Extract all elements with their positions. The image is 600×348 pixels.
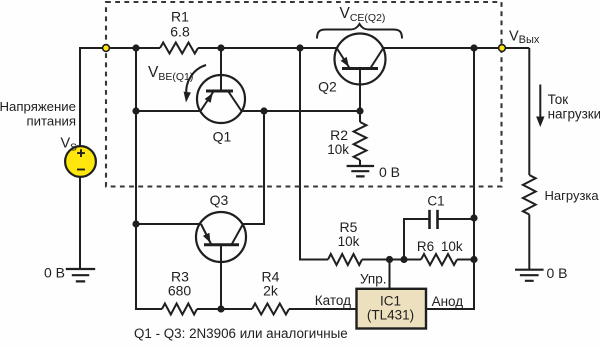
label Ток нагрузки (548, 92, 600, 121)
svg-text:Упр.: Упр. (360, 272, 387, 287)
wire Q3 base down to R3/R4 junction (220, 245, 222, 309)
resistor R1 6.8 (160, 43, 198, 54)
wire left vertical bus x=136 (136, 48, 162, 309)
transistor Q3 circle (196, 212, 246, 262)
svg-text:2k: 2k (263, 283, 279, 299)
wire Q3 emitter horizontal (136, 223, 201, 225)
value 2k (263, 283, 279, 299)
wire Q1 emitter horizontal (136, 110, 201, 112)
voltage source Vs circle (65, 146, 96, 177)
svg-text:0 В: 0 В (547, 265, 568, 281)
wire bottom rail R4 to TL431 cathode (289, 308, 357, 310)
voltage source plus sign (77, 149, 85, 157)
svg-text:Нагрузка: Нагрузка (545, 188, 600, 203)
svg-text:0 В: 0 В (379, 164, 400, 180)
label TL431 (367, 308, 414, 323)
svg-text:Q1 - Q3: 2N3906 или аналогичны: Q1 - Q3: 2N3906 или аналогичные (134, 326, 348, 341)
svg-text:C1: C1 (427, 194, 444, 209)
svg-text:10k: 10k (338, 234, 360, 249)
label R3 (171, 269, 189, 285)
wire C1 right branch (438, 218, 475, 220)
transistor Q1 collector (228, 91, 242, 111)
pin label Анод (432, 294, 464, 309)
label Напряжение питания (0, 99, 76, 129)
node junction Q3 emitter (132, 220, 139, 227)
label R5 (340, 219, 358, 235)
node input yellow (103, 45, 110, 52)
wire middle vertical x=300 top rail to R5 (300, 48, 328, 260)
node junction top rail x300 (296, 44, 303, 51)
node junction top rail x136 (132, 44, 139, 51)
wire Q1 collector to Q2 base node (242, 110, 361, 112)
svg-text:680: 680 (168, 283, 192, 299)
wire load top lead (528, 48, 530, 175)
svg-text:IC1: IC1 (380, 294, 401, 309)
transistor Q2 collector (371, 49, 384, 69)
svg-text:Q2: Q2 (318, 79, 337, 95)
value 6.8 (170, 23, 190, 39)
label VBE(Q1) (148, 64, 193, 83)
svg-text:(TL431): (TL431) (367, 308, 414, 323)
svg-text:10k: 10k (441, 239, 463, 254)
wire top rail Q2 collector to load corner (383, 47, 529, 49)
value 10k R2 (327, 142, 349, 157)
annotation load current arrow (536, 85, 544, 128)
wire top rail R1 to Q2 emitter (198, 47, 337, 49)
svg-text:Q1: Q1 (213, 129, 232, 145)
ground under R2 (347, 166, 375, 176)
wire R6 right to anode bus (457, 259, 474, 261)
label C1 (427, 194, 444, 209)
resistor R3 680 (162, 304, 197, 315)
wire load bottom lead to ground (528, 215, 530, 270)
node junction ref pin (386, 256, 393, 263)
ground under source (66, 269, 95, 281)
svg-text:6.8: 6.8 (170, 23, 190, 39)
pin label Катод (315, 293, 351, 308)
dashed regulator boundary box (106, 2, 502, 187)
wire Q1 base vertical (220, 48, 222, 91)
node junction R6 right (470, 256, 477, 263)
node junction Q2 base (356, 107, 363, 114)
svg-text:Катод: Катод (315, 293, 351, 308)
node junction C1 right (470, 214, 477, 221)
resistor R5 10k (328, 254, 362, 265)
wire R2 bottom to ground (359, 160, 361, 166)
label R2 (330, 127, 348, 143)
svg-text:Ток: Ток (548, 92, 569, 107)
svg-text:питания: питания (26, 114, 76, 129)
svg-text:Напряжение: Напряжение (0, 99, 76, 114)
label IC1 (380, 294, 401, 309)
transistor Q1 emitter with arrow (201, 92, 214, 112)
svg-text:0 В: 0 В (44, 265, 65, 281)
op-amp IC1 TL431 box (357, 289, 427, 329)
label VCE(Q2) (340, 5, 386, 24)
value 10k R6 (441, 239, 463, 254)
label 0 В right (547, 265, 568, 281)
node junction Q1 collector (260, 107, 267, 114)
annotation VBE(Q1) arc arrow (184, 65, 206, 103)
transistor Q2 circle (335, 34, 386, 85)
resistor load Нагрузка (523, 175, 536, 215)
svg-text:R2: R2 (330, 127, 348, 143)
svg-text:R6: R6 (417, 239, 434, 254)
label R4 (262, 269, 280, 285)
node junction Q1 emitter (132, 107, 139, 114)
annotation VCE(Q2) brace (317, 24, 402, 39)
label 0 В middle (379, 164, 400, 180)
capacitor C1 (430, 210, 438, 229)
ground under load (515, 270, 544, 281)
label Q1 (213, 129, 232, 145)
node junction Q1 base top (217, 44, 224, 51)
resistor R6 10k (421, 254, 457, 265)
transistor Q3 emitter with arrow (201, 224, 211, 244)
wire right vertical bus x=474 top rail to anode (426, 48, 474, 309)
label Q3 (210, 192, 229, 208)
wire source to top rail and R1 (80, 48, 160, 146)
value 680 (168, 283, 192, 299)
wire Q1 collector down to Q3 collector (243, 111, 264, 224)
label Q2 (318, 79, 337, 95)
wire source Vs bottom lead to ground (79, 177, 81, 269)
label R6 (417, 239, 434, 254)
label Vs (61, 136, 78, 154)
label Нагрузка (545, 188, 600, 203)
node junction C1 left (400, 256, 407, 263)
transistor Q3 base bar (204, 243, 239, 246)
label Vвых (509, 29, 540, 47)
wire bottom rail R3 to R4 (197, 308, 252, 310)
wire TL431 ref pin vertical (389, 260, 391, 289)
resistor R4 2k (252, 304, 289, 315)
svg-text:нагрузки: нагрузки (548, 106, 600, 121)
transistor Q1 base bar (206, 90, 233, 93)
node junction R3 R4 (217, 305, 224, 312)
label 0 В left (44, 265, 65, 281)
node junction top rail x474 (470, 44, 477, 51)
pin label Упр. (360, 272, 387, 287)
svg-text:R5: R5 (340, 219, 358, 235)
node output yellow Vвых (499, 45, 506, 52)
transistor Q2 base bar (342, 67, 378, 70)
wire Q2 base down to R2 (359, 69, 361, 123)
transistor Q3 collector (232, 224, 244, 245)
wire C1 left branch (404, 219, 430, 260)
svg-text:10k: 10k (327, 142, 349, 157)
wire R5 right to R6 left (362, 259, 421, 261)
voltage source minus sign (77, 169, 85, 171)
value 10k R5 (338, 234, 360, 249)
svg-text:Анод: Анод (432, 294, 464, 309)
transistor Q1 circle (197, 75, 245, 123)
svg-text:Q3: Q3 (210, 192, 229, 208)
transistor Q2 emitter with arrow (337, 49, 350, 69)
caption Q1-Q3 2N3906 (134, 326, 348, 341)
label R1 (171, 9, 189, 25)
resistor R2 10k (354, 122, 367, 160)
svg-text:R1: R1 (171, 9, 189, 25)
